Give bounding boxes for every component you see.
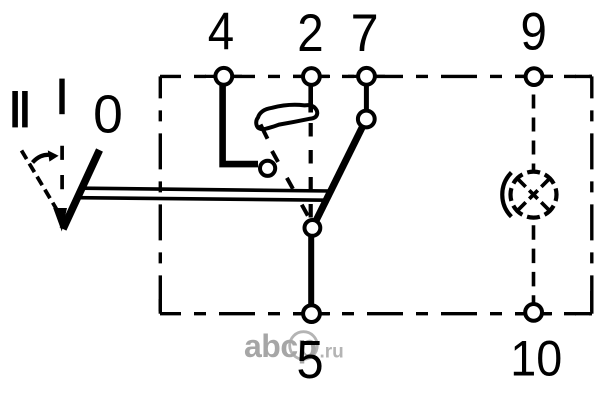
terminal 10 circle xyxy=(525,304,542,321)
lamp illumination arc xyxy=(502,173,511,217)
re-draw stub from 2 over capsule xyxy=(308,100,313,113)
return arrow head xyxy=(48,150,59,161)
svg-text:5: 5 xyxy=(296,331,323,390)
terminal 7 circle xyxy=(358,68,375,85)
lamp dashed circle xyxy=(511,172,557,218)
lamp cross diagonal 2 xyxy=(517,178,550,211)
lamp cross diagonal 1 xyxy=(517,178,550,211)
svg-text:0: 0 xyxy=(93,86,123,145)
dashed wire 9 to lamp xyxy=(532,95,536,171)
wire stub from terminal 2 (upper solid) xyxy=(308,84,313,113)
border corner bottom-right horizontal xyxy=(575,312,592,315)
wire from terminal 4 to fixed contact xyxy=(223,84,258,164)
svg-text:9: 9 xyxy=(521,2,547,61)
dashed wire lamp to 10 xyxy=(532,225,536,303)
terminal 9 circle xyxy=(526,68,543,85)
svg-text:4: 4 xyxy=(208,2,234,61)
dashed lever position I (vertical) xyxy=(60,146,64,193)
lever position 0 (solid) xyxy=(63,150,100,229)
enclosure border left xyxy=(159,76,162,313)
watermark abcp.ru logo xyxy=(244,328,344,364)
lever position label: I xyxy=(59,79,64,115)
border corner top-right xyxy=(575,75,592,78)
stub at terminal 9 xyxy=(515,75,553,78)
svg-text:2: 2 xyxy=(297,4,323,63)
stub at terminal 5 xyxy=(293,312,330,315)
enclosure border top xyxy=(160,75,592,78)
border corner bottom-right vertical xyxy=(590,291,593,314)
moving contact lever 7-5 (solid) xyxy=(312,119,366,228)
pivot contact circle of terminal 7 xyxy=(358,111,375,128)
svg-text:7: 7 xyxy=(351,4,379,63)
actuator rod (double line) upper xyxy=(82,188,331,191)
fixed contact circle of terminal 4 xyxy=(260,161,275,176)
stub at terminal 4 xyxy=(205,75,242,78)
return arrow (curved) body xyxy=(33,155,50,163)
stub at terminal 10 xyxy=(515,312,552,315)
border corner bottom-left xyxy=(159,299,162,314)
stub at terminal 7 xyxy=(348,75,385,78)
svg-text:10: 10 xyxy=(510,329,562,386)
pivot arrowhead (down) xyxy=(53,208,67,232)
capsule tick (arrow tip) xyxy=(261,125,268,139)
enclosure border right xyxy=(590,76,593,313)
terminal 5 circle xyxy=(303,305,320,322)
dashed wire from 2 down to node 5 xyxy=(309,123,313,218)
dashed lever position II xyxy=(22,151,61,216)
actuator rod (double line) lower xyxy=(79,198,327,201)
wire node to terminal 5 xyxy=(308,235,314,306)
enclosure border bottom xyxy=(160,312,592,315)
stub at terminal 2 xyxy=(293,75,330,78)
terminal 4 circle xyxy=(215,68,232,85)
momentary-return capsule symbol near 2 xyxy=(256,105,317,129)
terminal 2 circle xyxy=(303,68,320,85)
node circle above terminal 5 xyxy=(305,220,321,236)
moving contact position II (dashed lever to contact of 4) xyxy=(272,151,311,221)
wire from terminal 7 to pivot xyxy=(364,84,369,112)
lever position labels: II xyxy=(12,91,18,127)
